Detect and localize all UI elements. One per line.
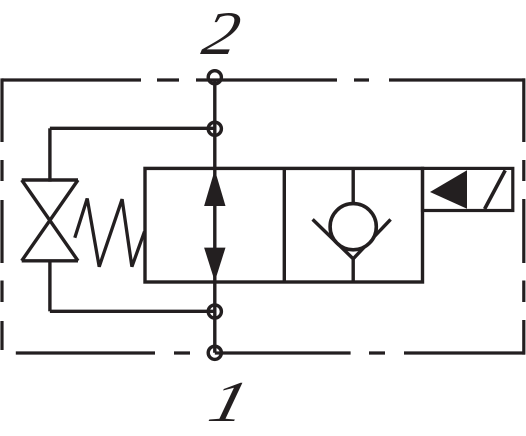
flow arrow up bbox=[204, 170, 225, 206]
spring bbox=[75, 199, 145, 267]
solenoid slash (proportional stroke) bbox=[485, 170, 506, 209]
node: lower junction circle bbox=[208, 305, 221, 318]
node: upper junction circle bbox=[208, 122, 221, 135]
valve body section divider bbox=[283, 168, 286, 282]
node: port 1 circle on border bbox=[208, 346, 221, 359]
svg-text:2: 2 bbox=[197, 0, 246, 68]
enclosure dashed border right bbox=[522, 78, 525, 354]
node: port 2 circle on border bbox=[208, 71, 221, 84]
solenoid armature filled triangle bbox=[430, 170, 467, 209]
main valve body (2/2 way valve box) bbox=[145, 168, 423, 282]
wire: poppet valve lower stub bbox=[48, 261, 51, 312]
poppet valve (seat valve hourglass symbol) bbox=[22, 180, 78, 261]
check valve stub below seat bbox=[352, 259, 355, 282]
wire: pilot branch vertical down to poppet valve bbox=[48, 128, 51, 181]
check valve seat (V) bbox=[313, 219, 391, 258]
check valve ball (circle) bbox=[330, 204, 376, 250]
enclosure dashed border top (port 2 line) bbox=[2, 78, 525, 81]
enclosure dashed border left bbox=[0, 78, 3, 350]
flow arrow down bbox=[204, 248, 225, 282]
wire: pilot branch horizontal from node to poppet bbox=[50, 127, 215, 130]
wire: lower branch horizontal to node bbox=[50, 310, 215, 313]
check valve stub from top edge bbox=[352, 168, 355, 206]
solenoid box bbox=[423, 168, 513, 210]
wire: vertical main line port 2 to port 1 bbox=[213, 80, 216, 353]
enclosure dashed border bottom (port 1 line) bbox=[16, 351, 525, 354]
svg-text:1: 1 bbox=[203, 370, 255, 434]
